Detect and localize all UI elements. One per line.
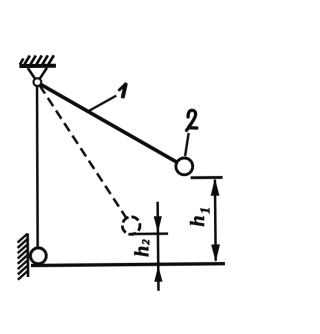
ball 2 <box>176 158 193 175</box>
h1 reference line <box>191 176 223 179</box>
ball at wall <box>30 248 46 264</box>
pivot bracket <box>28 68 47 79</box>
ceiling bar <box>19 64 56 68</box>
rod 1 <box>40 83 177 164</box>
floor line <box>31 264 225 266</box>
wall line <box>26 233 29 277</box>
ceiling hatching <box>19 55 56 86</box>
h1 arrow down <box>211 244 220 262</box>
wall hatching <box>17 234 27 280</box>
svg-text:h1: h1 <box>187 207 214 227</box>
label 1 <box>119 84 126 96</box>
label 2 <box>186 110 196 130</box>
dashed ball (phantom position) <box>122 217 140 235</box>
label 1 pointer <box>88 96 117 112</box>
h2 reference line <box>131 232 168 235</box>
h1 dimension line <box>214 180 217 261</box>
pivot circle <box>33 78 41 86</box>
h2 dimension line <box>156 202 159 291</box>
h1 arrow up <box>211 178 220 196</box>
wire dashed thread <box>40 85 126 219</box>
wire vertical thread <box>36 86 38 248</box>
label 2 pointer <box>185 133 189 156</box>
svg-text:h2: h2 <box>131 239 153 257</box>
h2 arrow down <box>154 216 162 233</box>
h2 arrow up <box>154 266 162 282</box>
